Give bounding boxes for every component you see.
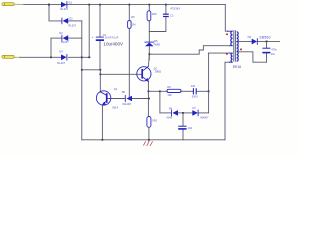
- ground red: [143, 141, 152, 146]
- wire C-out bottom lead: [266, 53, 268, 62]
- svg-text:1M: 1M: [132, 23, 136, 27]
- svg-text:4148: 4148: [166, 116, 172, 120]
- svg-text:630V: 630V: [192, 94, 198, 98]
- wire C1 top lead: [99, 5, 101, 37]
- wire C1 bottom lead: [99, 41, 101, 70]
- svg-text:1R5: 1R5: [152, 12, 157, 16]
- wire top rail: [24, 4, 225, 6]
- svg-text:D7: D7: [193, 106, 197, 110]
- wire J1 drop to D2 row: [49, 5, 62, 21]
- svg-text:D4: D4: [59, 50, 63, 54]
- resistor R1: [128, 15, 136, 28]
- svg-text:P6KE: P6KE: [154, 43, 161, 47]
- wire AC2 vertical: [50, 38, 52, 57]
- svg-text:D9: D9: [248, 35, 252, 39]
- capacitor C104 bottom: [178, 126, 192, 130]
- wire C473 top lead: [165, 5, 167, 14]
- connector J2: [2, 55, 21, 58]
- svg-text:C3: C3: [170, 13, 174, 17]
- wire R2 zener rail: [148, 5, 150, 11]
- svg-text:D882: D882: [155, 70, 162, 74]
- diode D2: [62, 16, 77, 27]
- resistor R3: [147, 117, 158, 128]
- wire output after diode: [258, 40, 280, 42]
- diode D9 SB560: [248, 35, 271, 45]
- svg-text:R9: R9: [167, 85, 171, 89]
- svg-text:10u/400V: 10u/400V: [103, 42, 124, 47]
- diode D8: [122, 90, 132, 106]
- svg-text:5R1: 5R1: [152, 118, 157, 122]
- transformer T1 core: [234, 30, 236, 61]
- svg-text:D8: D8: [122, 90, 126, 94]
- svg-text:SB560: SB560: [259, 36, 270, 40]
- svg-text:104: 104: [188, 126, 193, 130]
- svg-text:D3: D3: [59, 31, 63, 35]
- svg-text:16V470uF: 16V470uF: [105, 36, 119, 40]
- wire Q2 collector jog: [99, 70, 101, 92]
- svg-text:D5: D5: [154, 39, 158, 43]
- wire R1 rail top: [128, 5, 130, 21]
- wire left rail: [81, 21, 83, 140]
- transformer phase dots: [226, 33, 228, 35]
- svg-text:RL207: RL207: [60, 7, 68, 11]
- resistor R2: [147, 11, 157, 21]
- svg-text:104: 104: [191, 84, 196, 88]
- transformer secondary winding: [237, 32, 239, 61]
- svg-text:R3: R3: [131, 15, 135, 19]
- transistor Q2: [96, 87, 118, 110]
- diode D1: [60, 0, 72, 10]
- svg-text:RL207: RL207: [61, 40, 69, 44]
- svg-text:470u: 470u: [271, 47, 277, 51]
- zener D5: [144, 39, 160, 46]
- capacitor C473: [163, 7, 181, 18]
- capacitor C1 electrolytic: [92, 33, 119, 41]
- wire secondary bottom lead: [238, 52, 267, 62]
- transistor Q1: [137, 54, 162, 82]
- diode D7: [192, 106, 209, 119]
- wire snubber top: [148, 90, 167, 92]
- svg-text:D1: D1: [69, 0, 73, 4]
- svg-text:473/1KV: 473/1KV: [170, 7, 180, 11]
- svg-text:EE16: EE16: [233, 65, 241, 69]
- wire mid horizontal to Q1 base: [82, 69, 101, 71]
- wire to Q1 base: [100, 73, 141, 75]
- wire D2 row right: [68, 20, 81, 22]
- svg-text:RL207: RL207: [57, 61, 65, 65]
- svg-text:IN4007: IN4007: [200, 116, 209, 120]
- wire aux rail x208: [208, 53, 210, 113]
- wire secondary top lead: [237, 40, 252, 42]
- wire D6 D7 row: [160, 112, 171, 114]
- capacitor C-out electrolytic: [262, 47, 277, 55]
- svg-text:16v: 16v: [271, 52, 276, 56]
- wire aux top lead: [209, 52, 230, 54]
- wire J2 row: [20, 56, 61, 58]
- svg-text:+: +: [92, 36, 94, 39]
- svg-text:D6: D6: [169, 106, 173, 110]
- capacitor C104 630V: [191, 84, 198, 99]
- diode D6: [166, 106, 178, 119]
- svg-text:102: 102: [167, 93, 172, 97]
- svg-text:RL207: RL207: [68, 24, 76, 28]
- wire Q2 base row: [108, 98, 125, 100]
- svg-text:9014: 9014: [112, 106, 118, 110]
- wire C473 bottom lead: [149, 17, 166, 32]
- wire Q1 emitter rail: [147, 82, 149, 117]
- wire cap104 drop: [182, 113, 184, 126]
- resistor R5 snubber: [167, 85, 181, 97]
- svg-text:Q1: Q1: [114, 87, 118, 91]
- wire D3 row: [51, 37, 62, 39]
- diode D3: [59, 31, 69, 44]
- diode D4: [57, 50, 67, 65]
- wire x90 rail: [88, 5, 90, 58]
- transformer aux winding: [229, 53, 233, 62]
- svg-text:D2: D2: [69, 16, 73, 20]
- wire Q2 emitter: [101, 105, 103, 140]
- wire C-out top lead: [266, 41, 268, 48]
- wire ground bus: [82, 139, 225, 141]
- wire R1 rail bottom: [128, 28, 130, 98]
- wire snubber left drop: [159, 91, 161, 113]
- wire primary top lead: [225, 5, 228, 32]
- connector J1: [2, 3, 24, 6]
- wire aux bottom lead: [225, 62, 230, 140]
- transformer primary winding: [227, 31, 233, 46]
- wire collector staircase to primary: [149, 46, 229, 55]
- svg-text:IN4148: IN4148: [122, 102, 131, 106]
- wire R3 to ground bus: [148, 127, 150, 141]
